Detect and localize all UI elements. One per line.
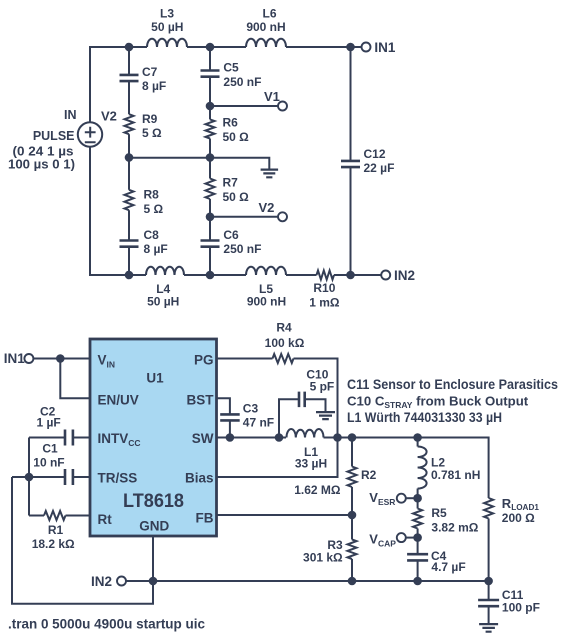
svg-text:1.62 MΩ: 1.62 MΩ [294, 483, 341, 497]
svg-text:L6: L6 [262, 6, 276, 20]
svg-text:R5: R5 [431, 506, 447, 520]
svg-text:SW: SW [192, 431, 214, 446]
svg-text:C7: C7 [142, 65, 158, 79]
svg-text:C8: C8 [144, 228, 160, 242]
svg-text:250 nF: 250 nF [223, 75, 261, 89]
svg-text:R10: R10 [313, 281, 335, 295]
svg-text:GND: GND [139, 519, 169, 534]
svg-text:IN: IN [64, 108, 77, 122]
svg-text:47 nF: 47 nF [243, 416, 274, 430]
svg-text:IN2: IN2 [91, 574, 112, 589]
svg-text:8 µF: 8 µF [142, 79, 166, 93]
svg-text:Rt: Rt [98, 512, 113, 527]
svg-text:R1: R1 [48, 523, 64, 537]
svg-text:10 nF: 10 nF [33, 455, 64, 469]
svg-text:R9: R9 [142, 112, 158, 126]
svg-text:IN1: IN1 [374, 40, 396, 55]
svg-text:R7: R7 [223, 176, 239, 190]
svg-text:R4: R4 [276, 321, 292, 335]
svg-text:100 pF: 100 pF [502, 601, 540, 615]
svg-text:50 Ω: 50 Ω [223, 190, 250, 204]
svg-text:(0 24 1 µs: (0 24 1 µs [13, 145, 74, 159]
svg-text:50 µH: 50 µH [151, 20, 183, 34]
svg-text:301 kΩ: 301 kΩ [303, 551, 343, 565]
svg-text:U1: U1 [146, 370, 164, 385]
svg-text:C12: C12 [364, 147, 386, 161]
svg-text:R6: R6 [223, 116, 239, 130]
svg-text:V2: V2 [101, 109, 117, 124]
svg-text:3.82 mΩ: 3.82 mΩ [431, 520, 478, 534]
svg-text:1 mΩ: 1 mΩ [309, 295, 340, 309]
svg-text:.tran 0 5000u 4900u startup ui: .tran 0 5000u 4900u startup uic [8, 617, 205, 632]
svg-text:5 Ω: 5 Ω [144, 202, 164, 216]
svg-text:R2: R2 [361, 468, 377, 482]
svg-text:IN1: IN1 [4, 351, 26, 366]
svg-text:C6: C6 [223, 228, 239, 242]
svg-text:FB: FB [196, 511, 214, 526]
svg-text:V1: V1 [264, 89, 280, 104]
svg-text:C10 CSTRAY from Buck Output: C10 CSTRAY from Buck Output [347, 394, 529, 411]
svg-text:8 µF: 8 µF [144, 242, 168, 256]
svg-text:BST: BST [187, 393, 215, 408]
svg-text:C3: C3 [243, 401, 259, 415]
svg-text:100 kΩ: 100 kΩ [265, 336, 305, 350]
svg-text:200 Ω: 200 Ω [502, 511, 535, 525]
svg-text:C5: C5 [223, 61, 239, 75]
svg-text:50 µH: 50 µH [147, 295, 179, 309]
svg-text:R8: R8 [144, 188, 160, 202]
svg-text:5 pF: 5 pF [310, 380, 335, 394]
svg-text:4.7 µF: 4.7 µF [431, 560, 465, 574]
svg-text:900 nH: 900 nH [247, 295, 286, 309]
svg-text:L1 Würth 744031330 33 µH: L1 Würth 744031330 33 µH [347, 410, 502, 425]
svg-text:5 Ω: 5 Ω [142, 126, 162, 140]
svg-text:IN2: IN2 [394, 268, 415, 283]
svg-text:C1: C1 [42, 442, 58, 456]
svg-text:V2: V2 [259, 200, 275, 215]
svg-text:LT8618: LT8618 [123, 491, 184, 512]
svg-text:250 nF: 250 nF [223, 242, 261, 256]
svg-text:18.2 kΩ: 18.2 kΩ [32, 537, 75, 551]
svg-text:C11 Sensor to Enclosure Parasi: C11 Sensor to Enclosure Parasitics [347, 377, 558, 392]
svg-text:TR/SS: TR/SS [98, 471, 138, 486]
svg-text:L3: L3 [160, 6, 174, 20]
svg-text:33 µH: 33 µH [295, 457, 327, 471]
svg-text:100 µs 0 1): 100 µs 0 1) [8, 158, 75, 172]
svg-text:22 µF: 22 µF [364, 161, 395, 175]
svg-text:900 nH: 900 nH [246, 20, 285, 34]
svg-text:Bias: Bias [185, 471, 214, 486]
svg-text:50 Ω: 50 Ω [223, 130, 250, 144]
svg-text:PG: PG [194, 352, 214, 367]
svg-text:EN/UV: EN/UV [98, 393, 139, 408]
svg-text:0.781 nH: 0.781 nH [431, 468, 480, 482]
svg-text:PULSE: PULSE [33, 129, 75, 143]
svg-text:1 µF: 1 µF [37, 415, 61, 429]
